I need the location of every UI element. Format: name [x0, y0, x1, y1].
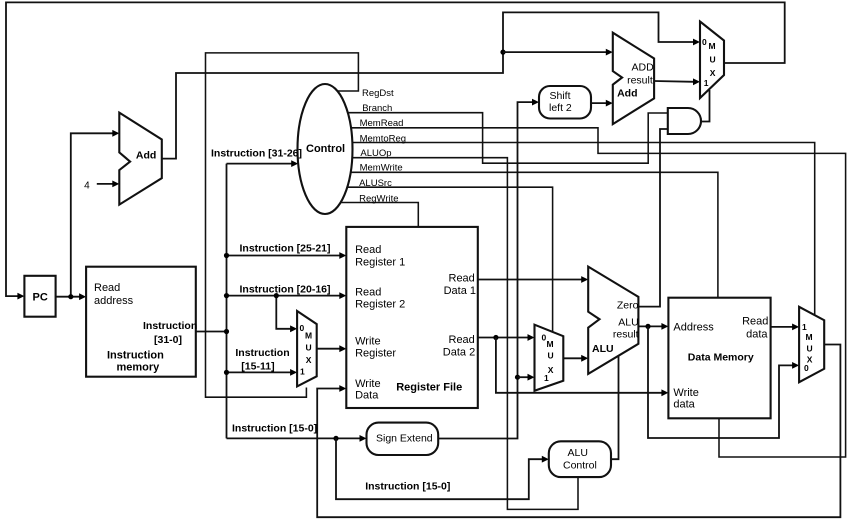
svg-text:M: M: [806, 332, 813, 342]
svg-text:U: U: [807, 344, 813, 354]
svg-text:Sign Extend: Sign Extend: [376, 433, 433, 445]
svg-text:ADD: ADD: [632, 62, 655, 74]
svg-text:Write: Write: [355, 378, 380, 390]
svg-text:data: data: [673, 399, 695, 411]
svg-text:ALU: ALU: [618, 317, 638, 329]
svg-text:Zero: Zero: [617, 300, 639, 312]
svg-text:MemtoReg: MemtoReg: [360, 134, 406, 145]
svg-text:Add: Add: [136, 150, 156, 162]
svg-text:result: result: [613, 329, 639, 341]
svg-text:Address: Address: [673, 322, 714, 334]
svg-text:ALU: ALU: [568, 447, 588, 459]
svg-text:Data 1: Data 1: [444, 285, 476, 297]
svg-text:Instruction [20-16]: Instruction [20-16]: [240, 284, 331, 296]
svg-text:[15-11]: [15-11]: [241, 361, 274, 373]
svg-text:Read: Read: [449, 334, 475, 346]
svg-text:Write: Write: [355, 336, 380, 348]
svg-text:Read: Read: [355, 244, 381, 256]
svg-text:Instruction [15-0]: Instruction [15-0]: [365, 481, 450, 493]
svg-text:Read: Read: [94, 282, 120, 294]
svg-text:ALUOp: ALUOp: [360, 148, 391, 159]
svg-text:0: 0: [300, 323, 305, 333]
svg-text:Instruction [15-0]: Instruction [15-0]: [232, 423, 317, 435]
svg-text:M: M: [709, 41, 716, 51]
svg-text:Control: Control: [563, 460, 597, 472]
svg-text:memory: memory: [117, 362, 161, 374]
svg-text:M: M: [305, 331, 312, 341]
svg-text:MemWrite: MemWrite: [360, 163, 403, 174]
svg-text:ALU: ALU: [592, 343, 614, 355]
svg-text:Shift: Shift: [550, 90, 571, 102]
svg-text:ALUSrc: ALUSrc: [359, 178, 392, 189]
svg-text:U: U: [306, 343, 312, 353]
svg-text:left 2: left 2: [549, 102, 572, 114]
svg-text:Register 1: Register 1: [355, 257, 405, 269]
svg-text:Data Memory: Data Memory: [688, 352, 754, 364]
svg-text:Data: Data: [355, 390, 379, 402]
svg-text:RegWrite: RegWrite: [359, 194, 398, 205]
svg-text:U: U: [710, 55, 716, 65]
svg-text:Register 2: Register 2: [355, 299, 405, 311]
svg-text:Register: Register: [355, 348, 396, 360]
svg-text:1: 1: [300, 367, 305, 377]
svg-text:result: result: [627, 75, 653, 87]
svg-text:U: U: [548, 351, 554, 361]
svg-text:Add: Add: [617, 88, 637, 100]
svg-text:MemRead: MemRead: [360, 118, 404, 129]
svg-text:0: 0: [702, 37, 707, 47]
svg-text:Branch: Branch: [362, 103, 392, 114]
svg-text:address: address: [94, 295, 134, 307]
svg-text:[31-0]: [31-0]: [154, 334, 182, 346]
svg-text:Instruction [31-26]: Instruction [31-26]: [211, 148, 302, 160]
svg-text:1: 1: [802, 322, 807, 332]
svg-text:Data 2: Data 2: [443, 347, 475, 359]
svg-text:Write: Write: [673, 387, 698, 399]
svg-text:Instruction [25-21]: Instruction [25-21]: [240, 243, 331, 255]
svg-text:X: X: [710, 68, 716, 78]
svg-text:0: 0: [804, 363, 809, 373]
svg-text:Instruction: Instruction: [107, 350, 164, 362]
svg-text:X: X: [306, 355, 312, 365]
svg-text:Control: Control: [306, 143, 345, 155]
svg-text:Read: Read: [449, 273, 475, 285]
svg-text:RegDst: RegDst: [362, 88, 394, 99]
svg-text:Instruction: Instruction: [143, 320, 197, 332]
svg-text:Read: Read: [355, 287, 381, 299]
svg-text:1: 1: [544, 373, 549, 383]
svg-text:data: data: [746, 329, 768, 341]
svg-text:Instruction: Instruction: [235, 347, 289, 359]
svg-text:Read: Read: [742, 316, 768, 328]
svg-text:Register File: Register File: [396, 382, 462, 394]
svg-text:M: M: [547, 339, 554, 349]
svg-text:4: 4: [84, 180, 90, 191]
svg-text:1: 1: [704, 78, 709, 88]
svg-text:PC: PC: [33, 292, 48, 304]
